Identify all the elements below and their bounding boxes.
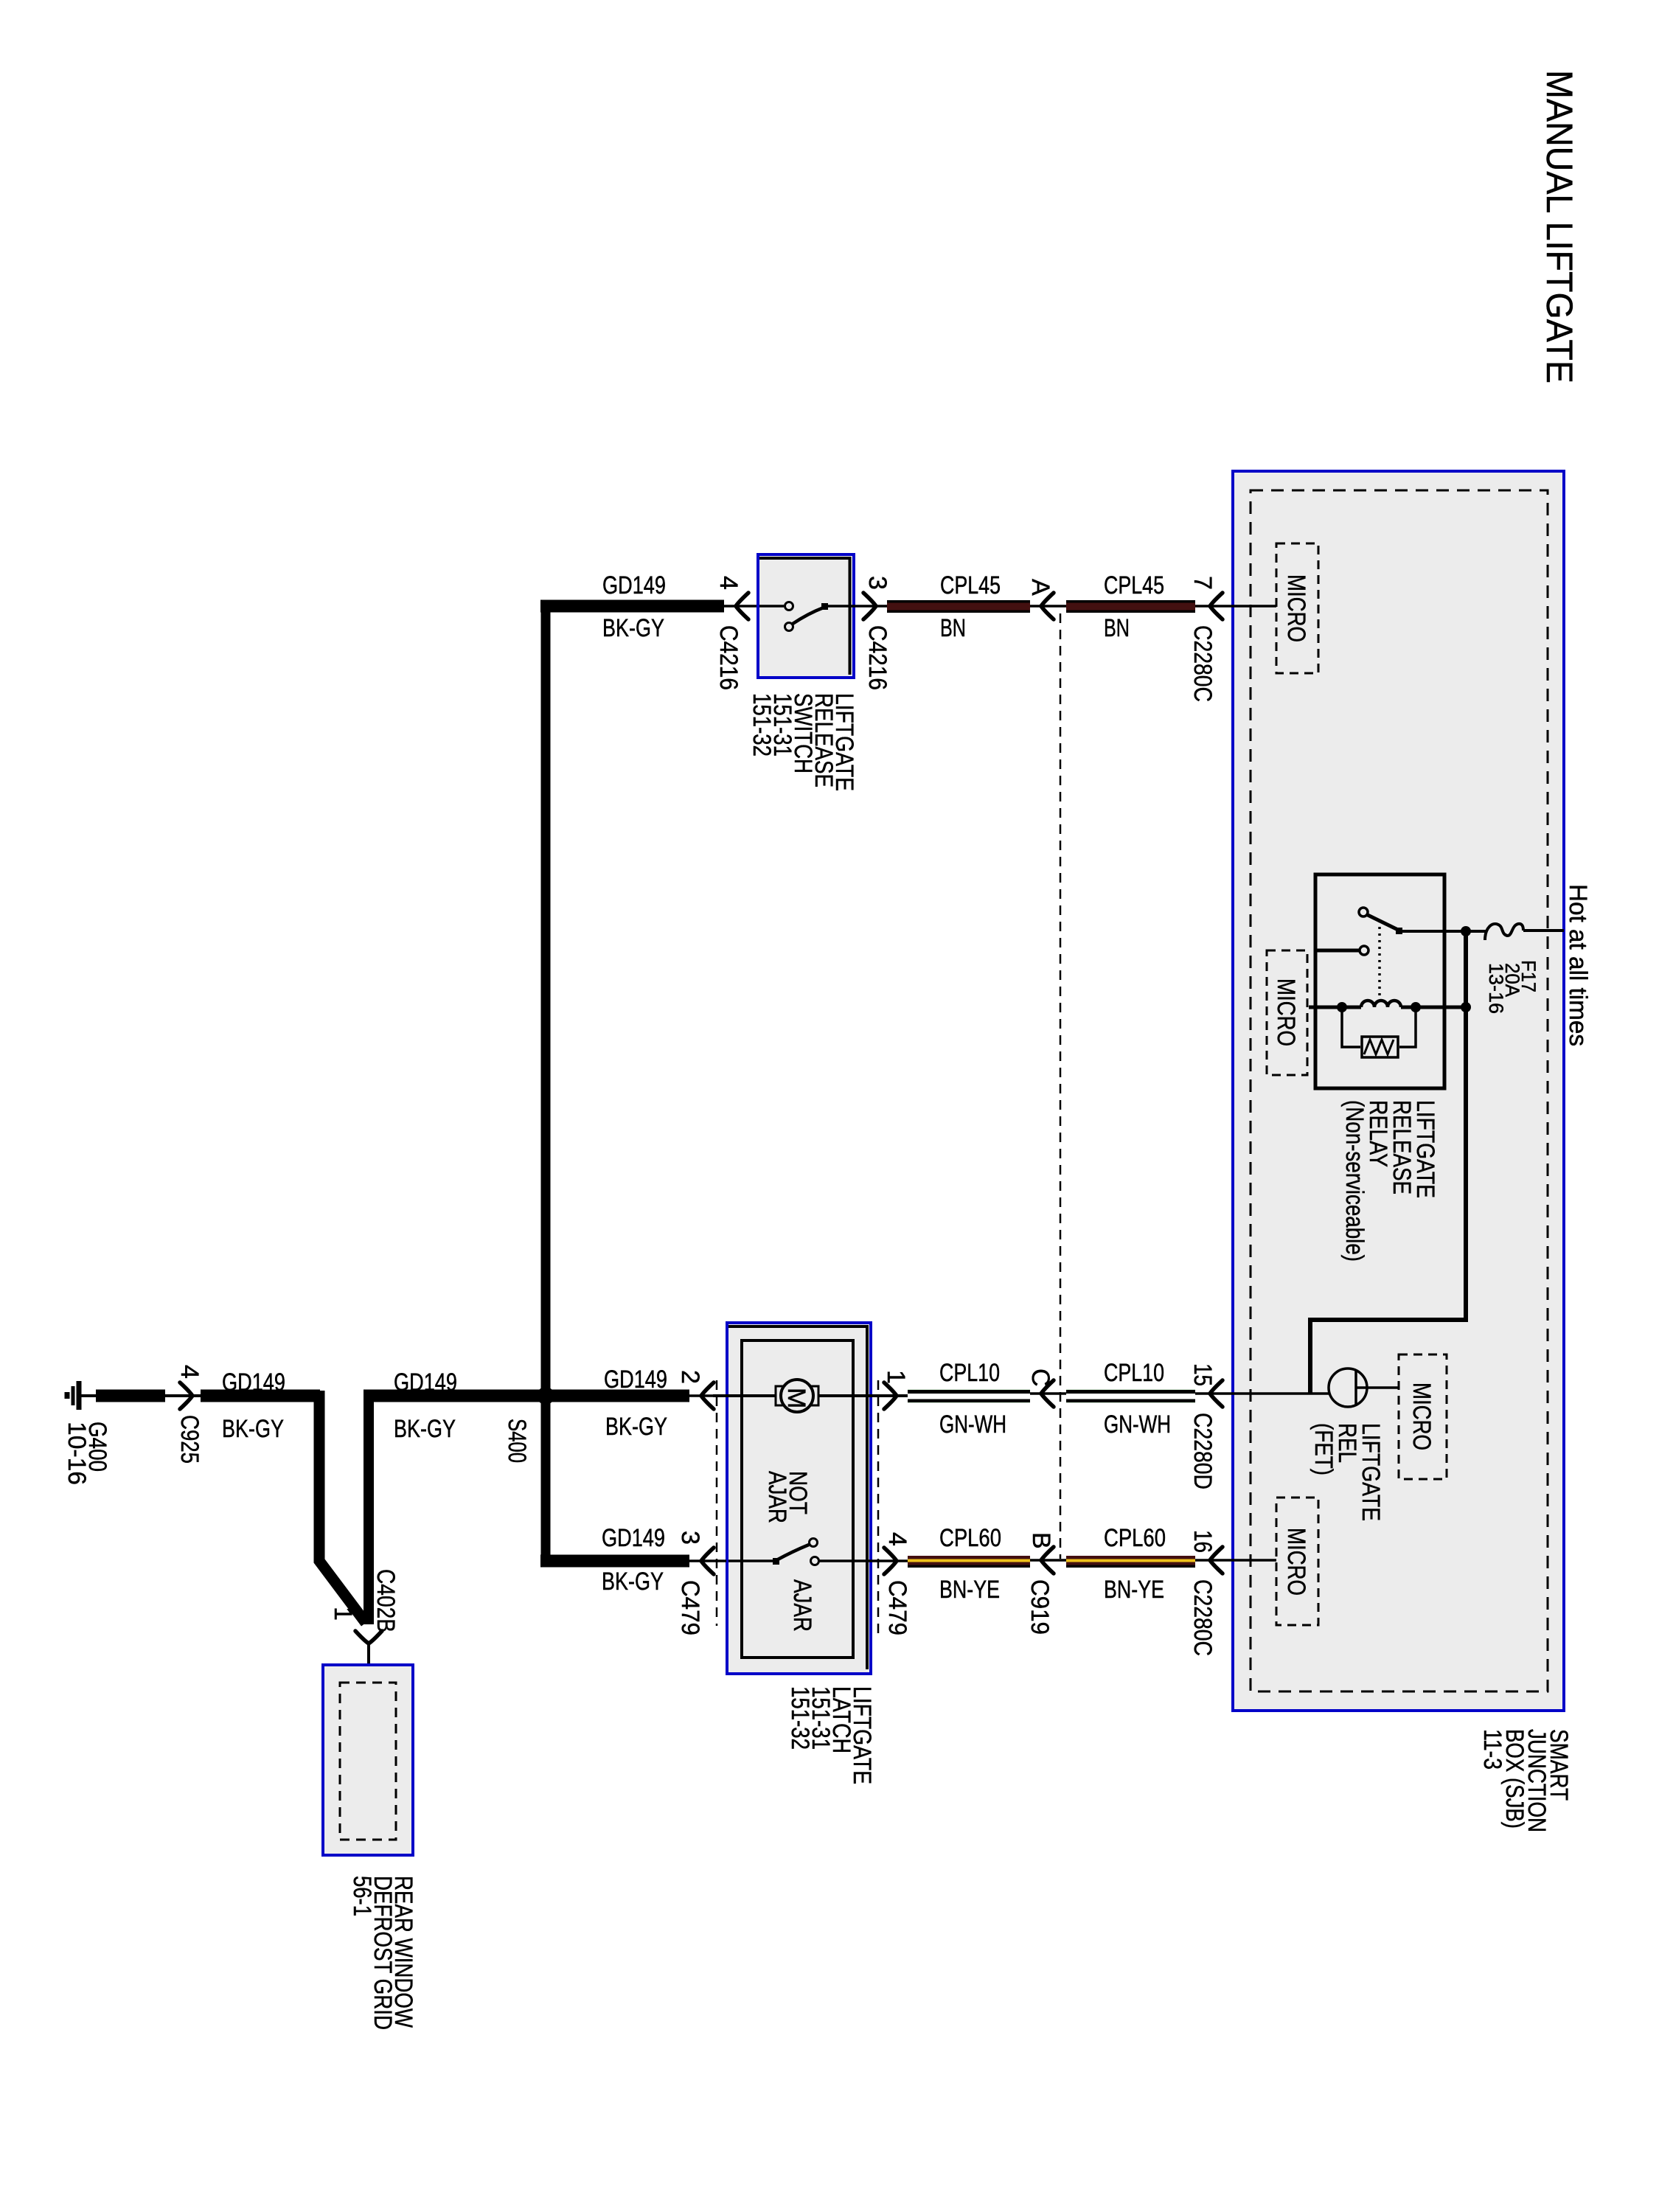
- connector C402B arrow (pin 1, down): [355, 1631, 382, 1644]
- svg-text:Hot at all times: Hot at all times: [1564, 884, 1592, 1046]
- in-line connector arrow C: [1041, 1380, 1054, 1407]
- svg-text:BN: BN: [940, 614, 966, 642]
- latch motor wire: [713, 1394, 779, 1397]
- svg-text:C4216: C4216: [863, 625, 891, 690]
- wire branch down to C402B (left leg): [319, 1391, 366, 1623]
- harness boundary dashed line: [1060, 613, 1062, 1559]
- svg-text:1: 1: [882, 1370, 910, 1384]
- wire CPL45 BN segment 2: [1066, 600, 1195, 613]
- wire CPL60 BN-YE segment 2: [1066, 1556, 1195, 1565]
- svg-text:(Non-serviceable): (Non-serviceable): [1340, 1100, 1368, 1262]
- release switch contacts and blade: [759, 605, 784, 608]
- fuse F17: [1485, 924, 1523, 940]
- connector C479 arrow pin 1: [884, 1382, 897, 1409]
- svg-text:AJAR: AJAR: [788, 1579, 816, 1632]
- connector C925 arrow (pin 4): [180, 1382, 192, 1409]
- resistor element: [1362, 1037, 1398, 1057]
- liftgate latch box: [727, 1323, 871, 1674]
- junction node fuse/relay output: [1461, 926, 1471, 936]
- svg-text:C2280D: C2280D: [1189, 1413, 1217, 1489]
- svg-text:BN: BN: [1104, 614, 1130, 642]
- wire GD149 BK-GY row1 to release switch: [540, 600, 724, 613]
- MICRO box 3: [1399, 1354, 1447, 1479]
- svg-text:C2280C: C2280C: [1189, 625, 1217, 702]
- relay coil wire: [1309, 1006, 1361, 1009]
- svg-text:CPL10: CPL10: [939, 1359, 1000, 1387]
- relay NC contact: [1360, 946, 1368, 955]
- relay actuator dotted link: [1378, 920, 1381, 1003]
- svg-text:(FET): (FET): [1310, 1423, 1338, 1475]
- connector C479 arrow pin 2: [701, 1382, 714, 1409]
- svg-text:C402B: C402B: [372, 1569, 400, 1632]
- svg-text:C925: C925: [175, 1415, 204, 1464]
- in-line connector arrow A: [1041, 593, 1054, 619]
- connector C4216 arrow pin 4: [736, 593, 748, 619]
- svg-text:A: A: [1026, 579, 1054, 596]
- liftgate release switch box: [758, 554, 854, 678]
- connector C2280C arrow pin 7: [1210, 593, 1222, 619]
- relay pivot contact: [1359, 908, 1368, 917]
- svg-text:4: 4: [175, 1365, 204, 1379]
- wire GD149 BK-GY from branch to S400: [364, 1390, 689, 1402]
- svg-text:16: 16: [1189, 1530, 1217, 1553]
- svg-text:C: C: [1026, 1368, 1054, 1387]
- svg-text:C479: C479: [883, 1580, 911, 1635]
- svg-text:GD149: GD149: [602, 1524, 665, 1552]
- junction node coil feed: [1461, 1002, 1471, 1012]
- svg-text:4: 4: [714, 576, 742, 590]
- svg-text:C2280C: C2280C: [1189, 1579, 1217, 1656]
- svg-text:CPL60: CPL60: [1104, 1524, 1166, 1552]
- svg-text:151-32: 151-32: [786, 1686, 814, 1750]
- svg-text:7: 7: [1189, 576, 1217, 590]
- svg-text:3: 3: [676, 1531, 704, 1545]
- svg-text:56-1: 56-1: [348, 1876, 376, 1916]
- connector C2280D arrow pin 15: [1210, 1380, 1222, 1407]
- relay blade: [1366, 914, 1399, 931]
- svg-text:MICRO: MICRO: [1272, 978, 1300, 1046]
- MICRO box 2: [1267, 950, 1307, 1075]
- resistor loop wires: [1342, 1007, 1360, 1047]
- wire relay output down to FET: [1310, 931, 1466, 1394]
- connector C4216 arrow pin 3: [863, 593, 876, 619]
- connector C479 arrow pin 3: [701, 1548, 714, 1574]
- svg-text:MICRO: MICRO: [1408, 1382, 1436, 1450]
- svg-text:C479: C479: [676, 1580, 704, 1635]
- wire from relay common to fuse F17: [1399, 930, 1486, 933]
- svg-text:CPL45: CPL45: [940, 571, 1001, 599]
- svg-text:10-16: 10-16: [63, 1422, 91, 1485]
- wire CPL45 BN segment 1: [887, 600, 1030, 613]
- svg-text:BK-GY: BK-GY: [605, 1413, 667, 1441]
- svg-text:MICRO: MICRO: [1282, 1528, 1310, 1596]
- svg-text:13-16: 13-16: [1485, 963, 1507, 1014]
- svg-text:3: 3: [863, 576, 891, 590]
- svg-text:GD149: GD149: [394, 1368, 457, 1397]
- rear window defrost grid box: [323, 1665, 413, 1855]
- liftgate release relay box: [1315, 874, 1444, 1088]
- svg-text:M: M: [782, 1388, 810, 1408]
- svg-text:15: 15: [1189, 1363, 1217, 1386]
- svg-text:B: B: [1027, 1532, 1055, 1549]
- svg-text:GN-WH: GN-WH: [939, 1411, 1006, 1439]
- wire branch down to C402B (right leg): [364, 1396, 374, 1624]
- svg-text:MICRO: MICRO: [1282, 574, 1310, 642]
- svg-text:11-3: 11-3: [1478, 1729, 1506, 1770]
- connector C479 arrow pin 4: [884, 1548, 897, 1574]
- MICRO box 1: [1276, 543, 1318, 673]
- svg-text:C919: C919: [1026, 1579, 1054, 1635]
- wire CPL10 GN-WH segment 2: [1066, 1389, 1195, 1403]
- svg-text:4: 4: [883, 1532, 911, 1546]
- svg-text:AJAR: AJAR: [763, 1471, 791, 1523]
- relay NC contact wire: [1317, 949, 1359, 953]
- defrost grid inner dashed box: [340, 1683, 396, 1840]
- wire CPL10 GN-WH segment 1: [908, 1389, 1030, 1403]
- svg-text:BN-YE: BN-YE: [939, 1576, 1000, 1604]
- wire GD149 BK-GY from C925 to branch corner: [201, 1390, 320, 1402]
- wire GD149 trunk vertical through S400: [541, 601, 551, 1566]
- wire GD149 BK-GY row3: [540, 1555, 689, 1568]
- junction node coil left: [1337, 1002, 1347, 1012]
- in-line connector C919 arrow B: [1041, 1547, 1054, 1573]
- svg-text:GN-WH: GN-WH: [1104, 1411, 1171, 1439]
- connector C2280C arrow pin 16: [1210, 1547, 1222, 1573]
- latch inner box: [742, 1340, 853, 1658]
- svg-text:CPL60: CPL60: [939, 1524, 1001, 1552]
- svg-text:MANUAL LIFTGATE: MANUAL LIFTGATE: [1539, 70, 1580, 383]
- ground G400 symbol: [67, 1381, 79, 1410]
- svg-text:CPL45: CPL45: [1104, 571, 1164, 599]
- svg-text:2: 2: [676, 1370, 704, 1384]
- ajar switch: [728, 1559, 773, 1562]
- svg-text:C4216: C4216: [714, 625, 742, 690]
- smart junction box (SJB) outline: [1233, 471, 1564, 1711]
- liftgate rel FET symbol: [1329, 1368, 1367, 1407]
- svg-text:S400: S400: [503, 1419, 531, 1463]
- svg-text:1: 1: [329, 1607, 357, 1621]
- latch connector dashed boundaries: [716, 1380, 718, 1626]
- svg-text:BK-GY: BK-GY: [222, 1415, 284, 1443]
- svg-text:BK-GY: BK-GY: [394, 1415, 456, 1443]
- svg-text:CPL10: CPL10: [1104, 1359, 1164, 1387]
- wire into rear window defrost grid: [367, 1644, 370, 1686]
- svg-text:BK-GY: BK-GY: [602, 614, 664, 642]
- relay coil: [1361, 1001, 1401, 1007]
- svg-text:GD149: GD149: [222, 1368, 285, 1397]
- svg-text:GD149: GD149: [604, 1366, 667, 1394]
- svg-text:GD149: GD149: [602, 571, 666, 599]
- wire CPL60 BN-YE segment 1: [908, 1556, 1030, 1565]
- svg-text:BK-GY: BK-GY: [602, 1568, 664, 1596]
- wire GD149 from ground to C925: [79, 1394, 97, 1397]
- latch motor M: [776, 1386, 785, 1405]
- splice S400: [537, 1387, 554, 1405]
- SJB inner dashed boundary: [1251, 490, 1548, 1691]
- svg-text:BN-YE: BN-YE: [1104, 1576, 1164, 1604]
- svg-text:151-32: 151-32: [748, 693, 776, 757]
- junction node coil right: [1411, 1002, 1421, 1012]
- MICRO box 4: [1276, 1498, 1318, 1625]
